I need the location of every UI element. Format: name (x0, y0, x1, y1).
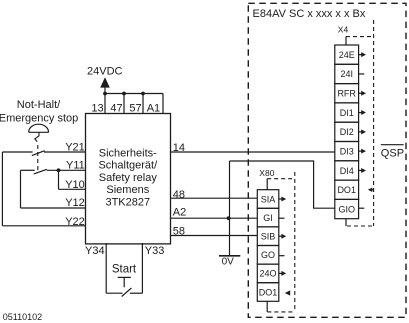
label 24VDC (87, 66, 123, 78)
svg-text:RFR: RFR (337, 89, 356, 99)
svg-text:X80: X80 (259, 168, 274, 178)
24VDC supply arrow (100, 77, 110, 93)
wire stub X4 bottom (345, 219, 347, 226)
wire 58 to SIB (171, 235, 258, 237)
wire stub terminal 13 (104, 94, 106, 114)
pin label Y34 (85, 245, 105, 257)
label X80 (259, 168, 274, 178)
arrow SIB input (279, 234, 286, 239)
terminal box GI (257, 208, 279, 227)
svg-text:Y33: Y33 (145, 245, 165, 257)
pin label 13 (91, 102, 103, 114)
terminal box SIA (257, 190, 279, 209)
tick GI (279, 217, 285, 219)
terminal label 24O (259, 269, 276, 279)
svg-text:24VDC: 24VDC (87, 66, 123, 78)
terminal box DI2 (335, 122, 359, 141)
svg-text:DO1: DO1 (259, 287, 278, 297)
terminal box DO1 X80 (257, 283, 279, 302)
label Start (112, 264, 137, 276)
label safety relay 3TK2827 (98, 148, 158, 209)
pin label Y33 (145, 245, 165, 257)
terminal strip X80 dashed outline (267, 172, 295, 312)
pin label 58 (173, 226, 185, 238)
svg-text:Y11: Y11 (66, 159, 85, 171)
pin label 14 (173, 142, 185, 154)
label X4 (338, 24, 349, 34)
svg-text:Start: Start (112, 264, 137, 276)
svg-text:SIA: SIA (261, 194, 276, 204)
svg-text:58: 58 (173, 226, 185, 238)
svg-text:GO: GO (261, 250, 275, 260)
terminal box DI3 (335, 142, 359, 161)
pin label 57 (129, 102, 141, 114)
wire Y10 branch (59, 170, 86, 189)
svg-text:05110102: 05110102 (3, 312, 42, 322)
pin label Y22 (65, 216, 85, 228)
svg-text:Safety relay: Safety relay (99, 172, 158, 184)
junction dot bus-57 (141, 92, 145, 96)
svg-text:24I: 24I (340, 69, 353, 79)
svg-text:GIO: GIO (338, 204, 355, 214)
arrow DI2 input (359, 129, 366, 134)
terminal label DI4 (340, 166, 354, 176)
svg-text:57: 57 (129, 102, 141, 114)
terminal label GIO (338, 204, 355, 214)
svg-text:Y10: Y10 (65, 179, 85, 191)
inverter enclosure E84AV dashed box (248, 3, 406, 317)
svg-text:DI1: DI1 (340, 108, 354, 118)
pin label 47 (110, 102, 122, 114)
svg-text:14: 14 (173, 142, 185, 154)
start button actuator (118, 277, 131, 287)
svg-text:A2: A2 (173, 206, 186, 218)
svg-text:24E: 24E (339, 50, 355, 60)
terminal box DO1 X4 (335, 180, 359, 199)
tick 24I (359, 73, 365, 75)
wire start bottom (106, 292, 142, 294)
wire A2 to GI (171, 217, 258, 219)
wire start stub Y34 (105, 243, 107, 293)
wire Y11 row (21, 169, 86, 171)
svg-text:24O: 24O (259, 269, 276, 279)
node QSP (381, 145, 404, 160)
svg-text:E84AV SC x xxx x x Bx: E84AV SC x xxx x x Bx (253, 8, 366, 20)
terminal box 24I (335, 64, 359, 83)
junction dot bus-47 (122, 92, 126, 96)
terminal label SIB (261, 232, 276, 242)
svg-text:SIB: SIB (261, 232, 276, 242)
terminal label SIA (261, 194, 276, 204)
svg-text:Schaltgerät/: Schaltgerät/ (98, 160, 158, 172)
arrow RFR input (359, 91, 366, 96)
svg-text:47: 47 (110, 102, 122, 114)
svg-text:QSP: QSP (381, 147, 404, 159)
wire stub X4 top (345, 37, 347, 46)
pin label Y12 (65, 197, 85, 209)
wire stub X80 top (266, 179, 268, 190)
svg-text:Sicherheits-: Sicherheits- (99, 148, 157, 160)
terminal box SIB (257, 227, 279, 246)
mushroom stem zigzag (35, 133, 39, 142)
svg-text:Y34: Y34 (85, 245, 105, 257)
svg-text:DO1: DO1 (337, 185, 356, 195)
emergency stop mushroom head (29, 124, 49, 132)
wire Y21 row (2, 151, 85, 153)
label E84AV SC x xxx x x Bx (253, 8, 366, 20)
pin label 48 (173, 189, 185, 201)
wire inner loop vertical (20, 170, 22, 208)
wire 0V rail (230, 161, 335, 256)
svg-text:A1: A1 (147, 102, 160, 114)
wire 24VDC bus (105, 93, 163, 95)
NO contact start blade (122, 288, 132, 297)
terminal label 24I (340, 69, 353, 79)
terminal box DI4 (335, 161, 359, 180)
arrow DI4 input (359, 168, 366, 173)
terminal label DI3 (340, 147, 354, 157)
pin label Y21 (65, 141, 85, 153)
arrow 24O input (279, 271, 286, 276)
terminal label DO1 X4 (337, 185, 356, 195)
arrow DO1 X4 output (368, 188, 374, 192)
svg-text:Y22: Y22 (65, 216, 85, 228)
pin label A1 (147, 102, 160, 114)
wire Y12 row (21, 207, 86, 209)
svg-text:13: 13 (91, 102, 103, 114)
wire stub terminal 47 (123, 94, 125, 114)
figure number 05110102 (3, 312, 42, 322)
svg-text:DI4: DI4 (340, 166, 354, 176)
terminal label GO (261, 250, 275, 260)
terminal box RFR (335, 84, 359, 103)
junction dot bus-13 (103, 92, 107, 96)
terminal label DI1 (340, 108, 354, 118)
safety relay K1 box (86, 114, 171, 244)
wire Y22 row (2, 225, 85, 227)
NC contact 1 blade (32, 151, 45, 156)
terminal box GO (257, 246, 279, 265)
terminal label 24E (339, 50, 355, 60)
junction dot A2-0V (227, 216, 231, 220)
svg-text:X4: X4 (338, 24, 349, 34)
terminal box GIO (335, 199, 359, 218)
terminal label DI2 (340, 127, 354, 137)
svg-text:Emergency stop: Emergency stop (0, 113, 78, 125)
terminal box 24O (257, 264, 279, 283)
pin label Y10 (65, 179, 85, 191)
pin label Y11 (66, 159, 85, 171)
svg-text:Y21: Y21 (65, 141, 85, 153)
ground 0V symbol (219, 256, 240, 268)
pin label A2 (173, 206, 186, 218)
wire stub terminal A1 (162, 94, 164, 114)
terminal box DI1 (335, 103, 359, 122)
svg-text:DI3: DI3 (340, 147, 354, 157)
tick GIO (359, 207, 365, 209)
svg-text:Y12: Y12 (65, 197, 85, 209)
svg-text:48: 48 (173, 189, 185, 201)
arrow SIA input (279, 197, 286, 202)
svg-text:DI2: DI2 (340, 127, 354, 137)
wire outer loop vertical (1, 152, 3, 226)
arrow DO1 X80 output (285, 290, 290, 295)
svg-text:Not-Halt/: Not-Halt/ (17, 99, 61, 111)
arrow 24E input (359, 52, 366, 57)
mechanical link dashed line (37, 145, 39, 171)
terminal box 24E (335, 45, 359, 64)
svg-text:GI: GI (263, 213, 273, 223)
wire stub X80 bottom (266, 301, 268, 312)
arrow DI1 input (359, 110, 366, 115)
wire start stub Y33 (141, 243, 143, 293)
terminal strip X4 dashed outline (346, 20, 374, 226)
svg-text:3TK2827: 3TK2827 (105, 196, 150, 208)
NC contact 2 blade (34, 169, 47, 174)
wire 14 to DI3 (171, 151, 335, 153)
svg-text:Siemens: Siemens (106, 184, 149, 196)
wire stub terminal 57 (142, 94, 144, 114)
tick GO (279, 255, 285, 257)
terminal label GI (263, 213, 273, 223)
junction dot Y11-Y10 (57, 168, 61, 172)
svg-text:0V: 0V (222, 256, 235, 267)
label Not-Halt / Emergency stop (0, 99, 78, 125)
wire 48 to SIA (171, 197, 258, 199)
arrow DI3 input (359, 149, 366, 154)
terminal label DO1 X80 (259, 287, 278, 297)
terminal label RFR (337, 89, 356, 99)
